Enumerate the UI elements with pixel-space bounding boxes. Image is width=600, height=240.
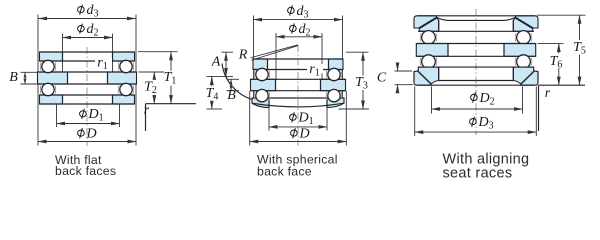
svg-text:C: C bbox=[377, 70, 387, 85]
RIGHT: top seat race bbox=[414, 16, 437, 28]
LEFT: center axis bbox=[86, 47, 88, 146]
LEFT: dimension B bbox=[21, 71, 38, 73]
svg-text:A: A bbox=[211, 55, 221, 70]
LEFT: dimension phi-d2 bbox=[78, 24, 85, 34]
MID: dimension phi-d2 bbox=[290, 23, 297, 33]
svg-text:B: B bbox=[227, 88, 236, 103]
svg-text:B: B bbox=[9, 70, 18, 85]
RIGHT: housing step line bbox=[539, 84, 586, 86]
LEFT: center housing washer bbox=[38, 72, 68, 84]
LEFT: cage row1 bbox=[39, 62, 42, 70]
svg-text:back face: back face bbox=[257, 165, 312, 179]
RIGHT: dimension phi-D3 bbox=[414, 87, 416, 137]
RIGHT: cage row2 bbox=[419, 57, 422, 65]
LEFT: bottom shaft washer bbox=[40, 95, 63, 104]
LEFT: housing step line bbox=[146, 103, 197, 105]
MID: bottom housing washer spherical bbox=[252, 98, 269, 108]
MID: ball row2 bbox=[256, 89, 268, 101]
MID: dimension A bbox=[222, 51, 234, 53]
RIGHT: cage row1 bbox=[419, 33, 422, 41]
RIGHT: dimension C bbox=[395, 70, 413, 72]
MID: dimension phi-D bbox=[249, 91, 251, 146]
MID: R leader lines bbox=[251, 45, 299, 58]
LEFT: dimension T1 bbox=[138, 51, 178, 53]
LEFT: phi-d2 extension lines bbox=[62, 34, 64, 73]
LEFT: ball row2 bbox=[42, 83, 54, 95]
MID: ball row1 bbox=[256, 68, 268, 80]
LEFT: label r1 bbox=[95, 58, 112, 68]
RIGHT: top shaft washer bbox=[419, 18, 438, 31]
RIGHT: ball row2 bbox=[422, 55, 436, 69]
MID: cage row2 bbox=[253, 91, 256, 99]
svg-text:r: r bbox=[545, 86, 551, 101]
MID: dimension T4 bbox=[211, 76, 213, 109]
MID: dimension T3 bbox=[346, 51, 369, 53]
MID: dimension B bbox=[227, 78, 240, 80]
MID: top housing washer bbox=[253, 59, 268, 70]
RIGHT: dimension T5 bbox=[537, 14, 586, 16]
MID: center shaft washer bbox=[251, 79, 276, 90]
LEFT: dimension T2 bbox=[139, 71, 165, 73]
RIGHT: center axis bbox=[475, 9, 477, 135]
MID: label r1 bbox=[307, 64, 323, 74]
LEFT: cage row2 bbox=[39, 85, 42, 93]
MID: dimension phi-D1 bbox=[268, 108, 270, 131]
MID: cage row1 bbox=[253, 70, 256, 78]
LEFT: dimension phi-d3 bbox=[78, 5, 85, 15]
svg-text:back faces: back faces bbox=[55, 164, 116, 178]
MID: phi-d3 extension lines bbox=[253, 16, 255, 99]
RIGHT: bottom seat race bbox=[414, 71, 432, 85]
RIGHT: center housing washer bbox=[416, 44, 448, 57]
LEFT: top shaft washer bbox=[40, 52, 63, 61]
RIGHT: bottom shaft washer bbox=[418, 67, 438, 84]
LEFT: ball row1 bbox=[42, 60, 54, 72]
MID: center axis bbox=[297, 45, 299, 146]
svg-text:D: D bbox=[299, 127, 310, 142]
RIGHT: dimension phi-D2 bbox=[431, 87, 433, 114]
svg-text:R: R bbox=[238, 48, 248, 63]
svg-text:D: D bbox=[86, 127, 97, 142]
RIGHT: ball row1 bbox=[422, 31, 436, 45]
MID: dimension phi-d3 bbox=[288, 5, 295, 15]
svg-text:r: r bbox=[144, 103, 150, 118]
LEFT: phi-d3 extension lines bbox=[37, 15, 39, 105]
LEFT: dimension phi-D1 bbox=[56, 104, 58, 128]
LEFT: dimension phi-D bbox=[37, 104, 39, 146]
svg-text:seat races: seat races bbox=[443, 166, 513, 182]
RIGHT: dimension T6 bbox=[538, 42, 564, 44]
MID: phi-d2 extension lines bbox=[275, 33, 277, 79]
MID: sphere arc R bbox=[222, 64, 256, 101]
